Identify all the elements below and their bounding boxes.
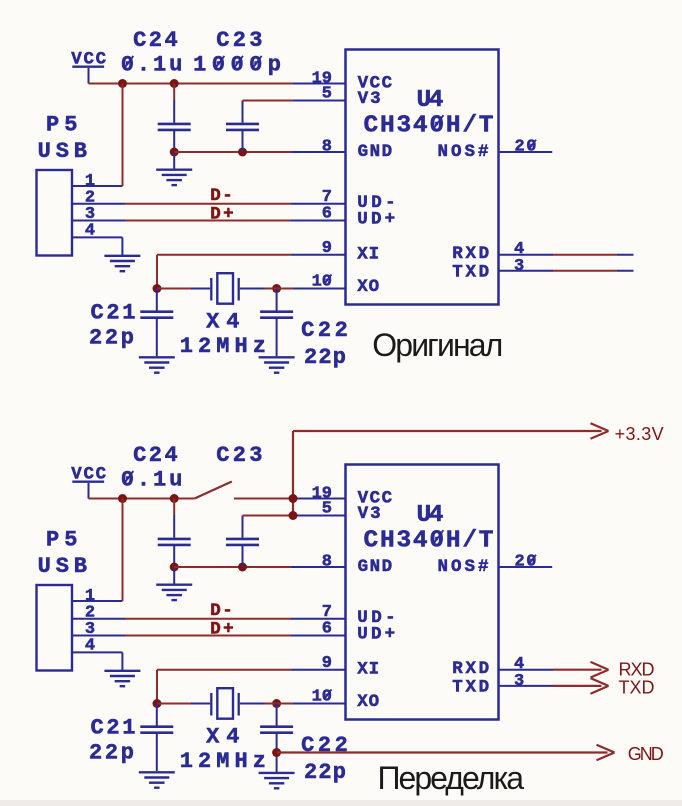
svg-text:C22: C22 (301, 318, 348, 343)
svg-text:12MHz: 12MHz (180, 749, 266, 774)
svg-text:10: 10 (312, 272, 332, 291)
svg-text:C22: C22 (301, 733, 348, 758)
svg-text:22p: 22p (304, 345, 346, 370)
svg-text:CH340H/T: CH340H/T (364, 527, 494, 554)
svg-text:XI: XI (357, 659, 379, 679)
svg-text:C23: C23 (216, 28, 262, 53)
svg-text:U4: U4 (417, 87, 444, 114)
svg-text:V3: V3 (358, 504, 381, 524)
svg-text:C21: C21 (91, 716, 136, 741)
svg-text:CH340H/T: CH340H/T (364, 112, 494, 139)
svg-text:Переделка: Переделка (378, 760, 525, 796)
svg-text:9: 9 (322, 239, 332, 258)
svg-text:D-: D- (210, 601, 233, 621)
svg-text:TXD: TXD (452, 262, 489, 282)
svg-text:D-: D- (210, 186, 233, 206)
svg-text:20: 20 (515, 553, 537, 572)
svg-text:22p: 22p (89, 326, 134, 351)
svg-text:U4: U4 (417, 502, 444, 529)
svg-text:XO: XO (357, 692, 379, 712)
svg-text:TXD: TXD (452, 677, 489, 697)
svg-text:20: 20 (515, 138, 537, 157)
svg-text:8: 8 (322, 553, 332, 572)
svg-text:3: 3 (514, 257, 524, 276)
svg-text:5: 5 (322, 84, 332, 103)
svg-text:XI: XI (357, 244, 379, 264)
svg-text:C23: C23 (216, 443, 262, 468)
svg-text:UD+: UD+ (357, 625, 395, 645)
svg-text:GND: GND (628, 744, 664, 764)
svg-text:RXD: RXD (452, 659, 489, 679)
svg-text:8: 8 (322, 138, 332, 157)
svg-text:Оригинал: Оригинал (372, 327, 503, 363)
svg-text:C24: C24 (133, 443, 178, 468)
svg-text:22p: 22p (304, 760, 346, 785)
svg-text:9: 9 (322, 654, 332, 673)
svg-text:TXD: TXD (619, 678, 655, 698)
svg-text:6: 6 (322, 205, 332, 224)
svg-text:3: 3 (514, 672, 524, 691)
svg-text:4: 4 (85, 222, 95, 241)
svg-text:12MHz: 12MHz (180, 334, 266, 359)
svg-text:10: 10 (312, 687, 332, 706)
svg-text:USB: USB (38, 554, 87, 579)
svg-text:UD+: UD+ (357, 210, 395, 230)
svg-text:5: 5 (322, 499, 332, 518)
svg-text:RXD: RXD (452, 244, 489, 264)
svg-text:+3.3V: +3.3V (615, 424, 664, 444)
svg-text:USB: USB (38, 139, 87, 164)
svg-text:C24: C24 (133, 28, 178, 53)
svg-text:GND: GND (358, 557, 393, 577)
svg-text:22p: 22p (89, 741, 134, 766)
svg-text:6: 6 (322, 620, 332, 639)
svg-text:XO: XO (357, 277, 379, 297)
svg-text:C21: C21 (91, 301, 136, 326)
svg-text:GND: GND (358, 142, 393, 162)
svg-text:RXD: RXD (619, 659, 655, 679)
svg-text:V3: V3 (358, 89, 381, 109)
svg-text:4: 4 (85, 637, 95, 656)
